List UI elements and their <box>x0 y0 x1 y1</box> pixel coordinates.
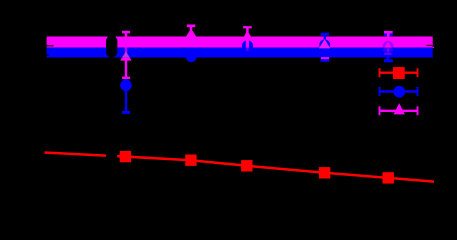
red square markers <box>120 151 394 184</box>
legend magenta entry: error bar + triangle <box>380 106 418 115</box>
g5 blue top cap <box>384 33 393 36</box>
magenta central line sliver at right edge <box>433 47 434 48</box>
g4 triangle <box>319 39 330 48</box>
g5 faint magenta stem + bottom cap under blue band <box>387 48 389 53</box>
magenta uncertainty band (upper) <box>47 37 433 48</box>
g4 blue error bar <box>321 34 330 61</box>
g2 magenta error bar <box>187 26 195 30</box>
red theory curve <box>45 153 435 182</box>
g5 blue circle (faint under band) <box>383 41 394 52</box>
legend blue entry: error bar + circle <box>380 87 418 96</box>
black triangle apex <box>106 30 117 39</box>
g3 stem over circle <box>246 40 249 48</box>
g1 magenta error bar <box>122 32 130 78</box>
g1 blue error bar <box>122 79 130 112</box>
g4 blue bottom cap (drawn after magenta cap) <box>321 59 330 62</box>
g1 blue circle <box>120 80 132 92</box>
black (hidden) square marker over red line <box>106 150 117 161</box>
g5 blue lower stem and cap <box>384 56 393 61</box>
g5 magenta top cap <box>384 31 393 34</box>
g5 triangle upper part (in magenta band, invisible) <box>385 42 392 48</box>
black y-axis tick marks over band (left edge) <box>47 45 54 47</box>
g1 triangle: upper part muted (under blue band), lower bright <box>122 51 130 58</box>
g3 magenta error bar <box>243 27 252 51</box>
black circle <box>106 46 117 57</box>
g4 blue circle <box>319 40 330 51</box>
black occluding column <box>106 40 117 49</box>
blue uncertainty band (lower) <box>47 48 433 58</box>
g3 blue circle <box>242 40 253 51</box>
g2 triangle (apex pokes above band) <box>185 28 196 37</box>
g2 blue circle <box>186 52 197 63</box>
g5 faint triangle lower part under blue band <box>382 48 393 52</box>
g5 magenta stem crossing blue cap into band <box>387 32 390 38</box>
g4 magenta bottom cap (below band) <box>321 57 329 59</box>
g3 triangle (apex pokes above band) <box>242 31 253 40</box>
legend red entry: error bar + square <box>380 68 418 77</box>
